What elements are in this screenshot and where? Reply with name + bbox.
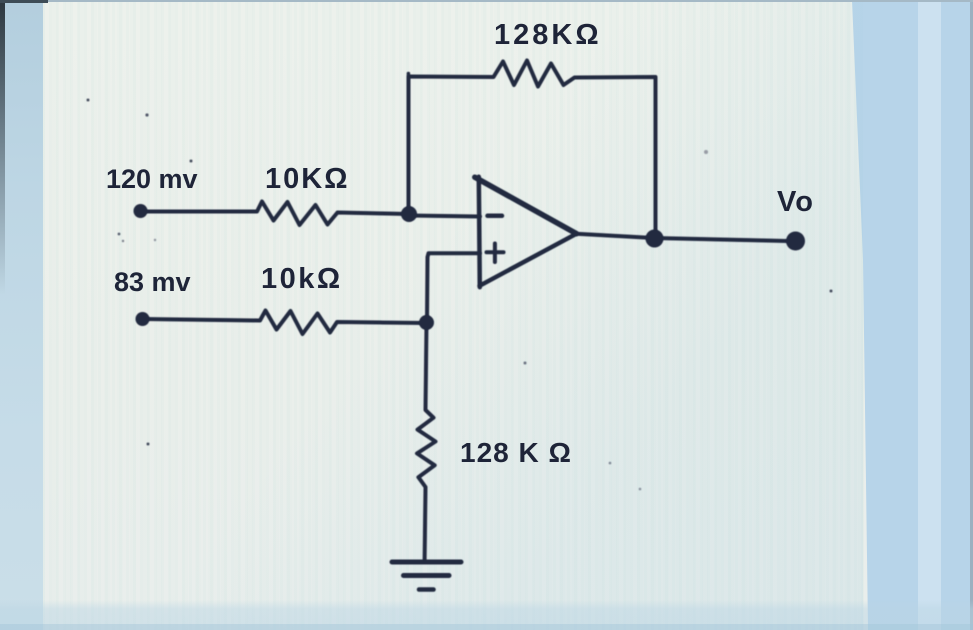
svg-text:128KΩ: 128KΩ xyxy=(494,19,602,51)
svg-text:128 K Ω: 128 K Ω xyxy=(460,437,572,468)
svg-text:83 mv: 83 mv xyxy=(114,267,191,297)
svg-text:120 mv: 120 mv xyxy=(106,164,198,194)
svg-text:Vo: Vo xyxy=(777,186,814,218)
svg-text:10kΩ: 10kΩ xyxy=(261,263,343,295)
svg-text:10KΩ: 10KΩ xyxy=(265,163,349,195)
